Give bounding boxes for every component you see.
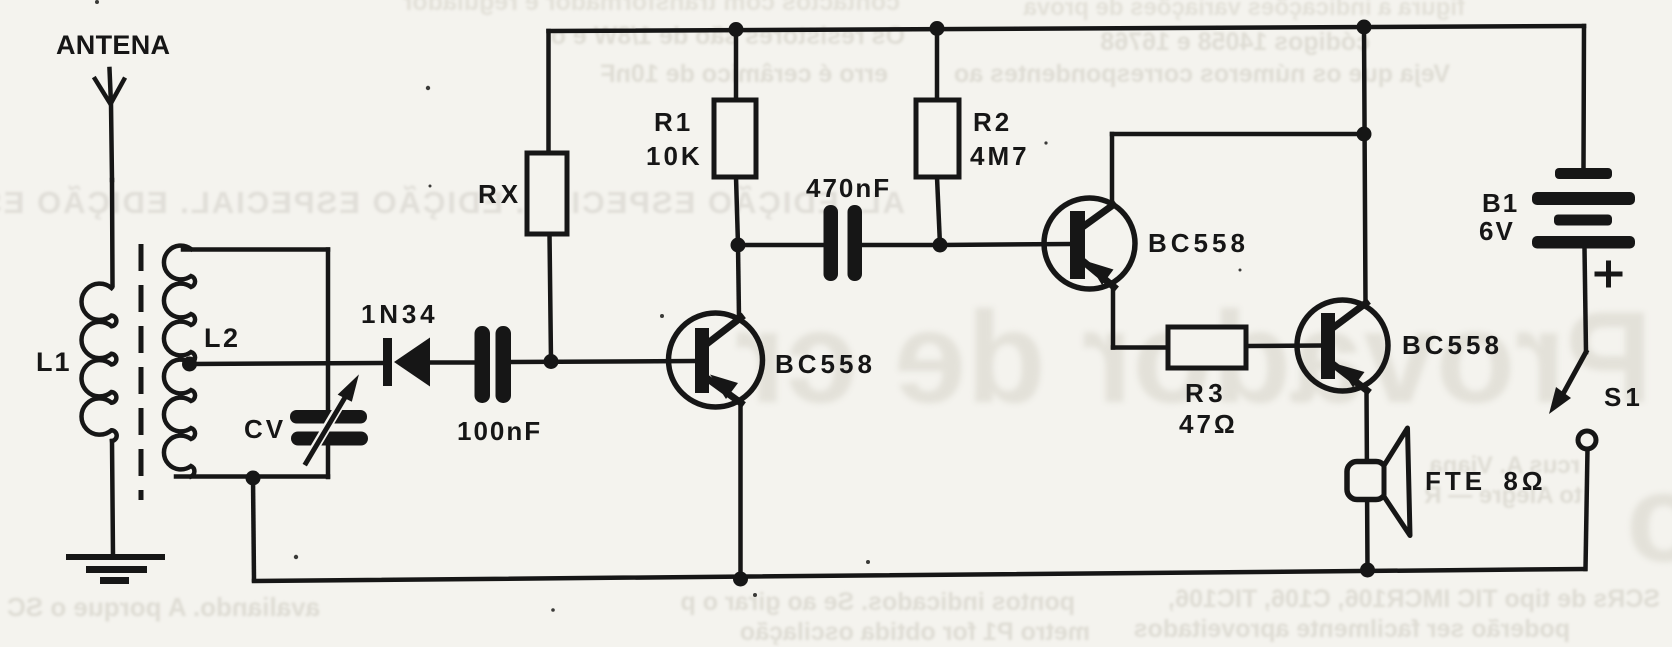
wire tank to bottom rail — [253, 478, 254, 580]
wire RX top lead — [546, 31, 551, 153]
svg-text:L1: L1 — [36, 347, 72, 377]
battery B1 plate 3 short — [1554, 215, 1612, 226]
svg-text:CV: CV — [244, 414, 286, 444]
node R2 bottom junction — [933, 238, 948, 253]
antenna symbol — [95, 69, 124, 180]
diode 1N34 — [383, 338, 430, 387]
svg-text:BC558: BC558 — [1148, 228, 1249, 258]
wire Q2 collector up — [1110, 134, 1115, 206]
ghost bleed-through text layer — [0, 0, 1672, 1]
svg-text:100nF: 100nF — [457, 416, 542, 446]
battery B1 plate 4 long — [1532, 236, 1635, 249]
node R1 bottom junction — [731, 238, 746, 253]
wire S1 to bottom rail — [1586, 449, 1588, 569]
wire 470nF to R2 junction — [862, 243, 940, 248]
node L2 tap — [182, 357, 197, 372]
svg-text:BC558: BC558 — [775, 349, 876, 379]
wire L2 tap to diode — [190, 363, 384, 364]
node collector rail junction — [1357, 127, 1372, 142]
wire Q3 emitter to speaker and rail — [1367, 390, 1368, 570]
resistor R2 — [916, 100, 959, 177]
capacitor 470nF — [824, 205, 863, 281]
scan speckles — [95, 0, 1242, 612]
svg-text:R1: R1 — [654, 107, 693, 137]
speaker FTE driver — [1347, 462, 1386, 500]
switch S1 lever with arrow — [1549, 352, 1586, 414]
wire battery top lead — [1581, 26, 1586, 168]
wire Q1 emitter to bottom rail — [738, 402, 743, 580]
svg-text:ANTENA: ANTENA — [56, 30, 170, 60]
transformer core dashed line — [139, 244, 144, 500]
wire Q2 emitter down — [1111, 287, 1116, 348]
node top rail to collector feed — [1357, 20, 1372, 35]
CV bottom lead — [326, 445, 331, 477]
capacitor 100nF — [475, 326, 512, 403]
transistor Q3 BC558 — [1297, 300, 1388, 391]
inductor L1 — [82, 284, 117, 441]
wire tank bottom — [176, 474, 328, 479]
node RX junction — [544, 354, 559, 369]
node speaker rail junction — [1360, 563, 1375, 578]
svg-text:R3: R3 — [1185, 378, 1227, 408]
svg-text:1N34: 1N34 — [361, 299, 438, 329]
wire R2 top lead — [935, 29, 940, 101]
svg-text:BC558: BC558 — [1402, 330, 1503, 360]
ground — [66, 557, 165, 581]
wire tank right side down to CV — [326, 250, 331, 412]
svg-text:470nF: 470nF — [806, 173, 891, 203]
battery plus sign — [1597, 263, 1620, 285]
wire R1 bottom lead — [736, 177, 738, 245]
switch S1 contact — [1578, 431, 1596, 449]
svg-text:10K: 10K — [646, 141, 703, 171]
wire R3 to Q3 base — [1246, 343, 1321, 348]
svg-text:4M7: 4M7 — [970, 141, 1030, 171]
wire Q2 emitter to R3 — [1113, 345, 1168, 350]
transistor Q2 BC558 — [1044, 198, 1135, 289]
speaker FTE cone — [1384, 428, 1410, 536]
wire tank top — [183, 247, 328, 252]
inductor L2 — [164, 246, 195, 477]
wire antenna lead — [110, 180, 115, 285]
node Q1 emitter rail junction — [733, 572, 748, 587]
wire capacitor to Q1 base — [511, 361, 695, 362]
wire diode to capacitor — [430, 360, 475, 365]
wire R2 bottom lead — [937, 177, 940, 245]
wire RX bottom lead — [550, 234, 552, 361]
svg-text:B1: B1 — [1482, 188, 1519, 218]
node tank bottom junction — [246, 471, 261, 486]
svg-text:47Ω: 47Ω — [1179, 409, 1238, 439]
svg-text:RX: RX — [478, 179, 522, 209]
svg-text:FTE 8Ω: FTE 8Ω — [1425, 466, 1547, 496]
wire collector feed vertical — [1364, 27, 1366, 303]
resistor R3 — [1168, 327, 1246, 368]
wire R1 top lead — [734, 30, 739, 101]
battery B1 plate 1 short — [1555, 168, 1612, 179]
resistor R1 — [714, 100, 756, 177]
node R2 top — [930, 21, 945, 36]
wire L1 to ground — [112, 441, 113, 556]
svg-text:6V: 6V — [1479, 216, 1515, 246]
transistor Q1 BC558 — [669, 313, 763, 407]
variable capacitor CV top plate — [290, 410, 367, 424]
resistor RX — [527, 153, 567, 234]
wire junction to 470nF — [738, 243, 824, 248]
wire Q2 collector horizontal — [1112, 132, 1364, 137]
battery B1 plate 2 long — [1532, 192, 1635, 205]
wire battery to switch lever — [1585, 248, 1587, 352]
wire Q1 collector — [738, 245, 739, 318]
wire bottom rail — [254, 569, 1585, 581]
svg-text:S1: S1 — [1604, 382, 1644, 412]
svg-text:R2: R2 — [973, 107, 1012, 137]
variable capacitor CV bottom plate — [291, 432, 368, 446]
node R1 top — [729, 22, 744, 37]
wire top rail — [549, 26, 1585, 31]
svg-text:L2: L2 — [204, 323, 241, 353]
CV arrow — [306, 376, 358, 463]
wire junction to Q2 base — [940, 244, 1070, 245]
